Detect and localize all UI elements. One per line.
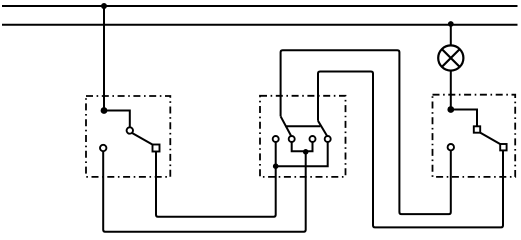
node: S1 common terminal: [101, 107, 108, 114]
node: T2/T3 junction: [303, 149, 309, 155]
terminal: S2 pivot (square): [474, 126, 480, 132]
terminal: S1 spare contact: [100, 145, 106, 151]
switch lever S1: [132, 133, 153, 145]
terminal: S3 T2: [289, 136, 295, 142]
wire: lamp to S2 common: [450, 71, 452, 110]
wire: T2 to junction: [292, 142, 306, 151]
switch lever S3 right: [318, 121, 328, 137]
terminal: S3 T4: [325, 136, 331, 142]
node: junction of feed on line L: [101, 3, 107, 9]
node: S2 common terminal: [447, 106, 454, 113]
terminal: S1 moving contact (square): [153, 145, 160, 152]
wire: S2 common to pivot: [451, 110, 477, 127]
switch box S2 (dash-dot enclosure): [433, 95, 516, 177]
terminal: S1 pivot: [127, 127, 133, 133]
node: junction of lamp drop on line N: [448, 21, 454, 27]
wire: S1 contact to S3 T1 (bottom inner loop): [156, 142, 276, 217]
wire: S1 spare terminal to S3 T2/T3 junction (bottom outer loop): [103, 151, 306, 232]
terminal: S2 spare contact: [448, 144, 454, 150]
wire: S3 left lever over-route to S2 spare terminal: [281, 50, 451, 214]
switch box S3 intermediate (dash-dot enclosure): [260, 96, 346, 177]
switch lever S3 left: [281, 116, 292, 137]
wire: S1 common to pivot: [104, 111, 130, 128]
switch box S1 (dash-dot enclosure): [86, 96, 170, 177]
wire: S3 tie-bar over-route to S2 contact: [318, 72, 503, 228]
wire: supply line N: [2, 24, 518, 26]
lever tie bar S3: [285, 125, 320, 127]
wire: supply line L: [2, 5, 518, 7]
switch lever S2: [480, 132, 501, 144]
wire: T3 to junction: [306, 142, 313, 151]
lamp E1: [438, 45, 463, 70]
wire: T1-T4 strap: [276, 142, 328, 166]
wire: feed from line L down to S1 common: [103, 6, 105, 111]
terminal: S2 moving contact (square): [500, 144, 506, 150]
terminal: S3 T3: [310, 136, 316, 142]
wire: line N down to lamp: [450, 25, 452, 46]
node: strap junction on T1 drop: [273, 163, 279, 169]
terminal: S3 T1: [273, 136, 279, 142]
